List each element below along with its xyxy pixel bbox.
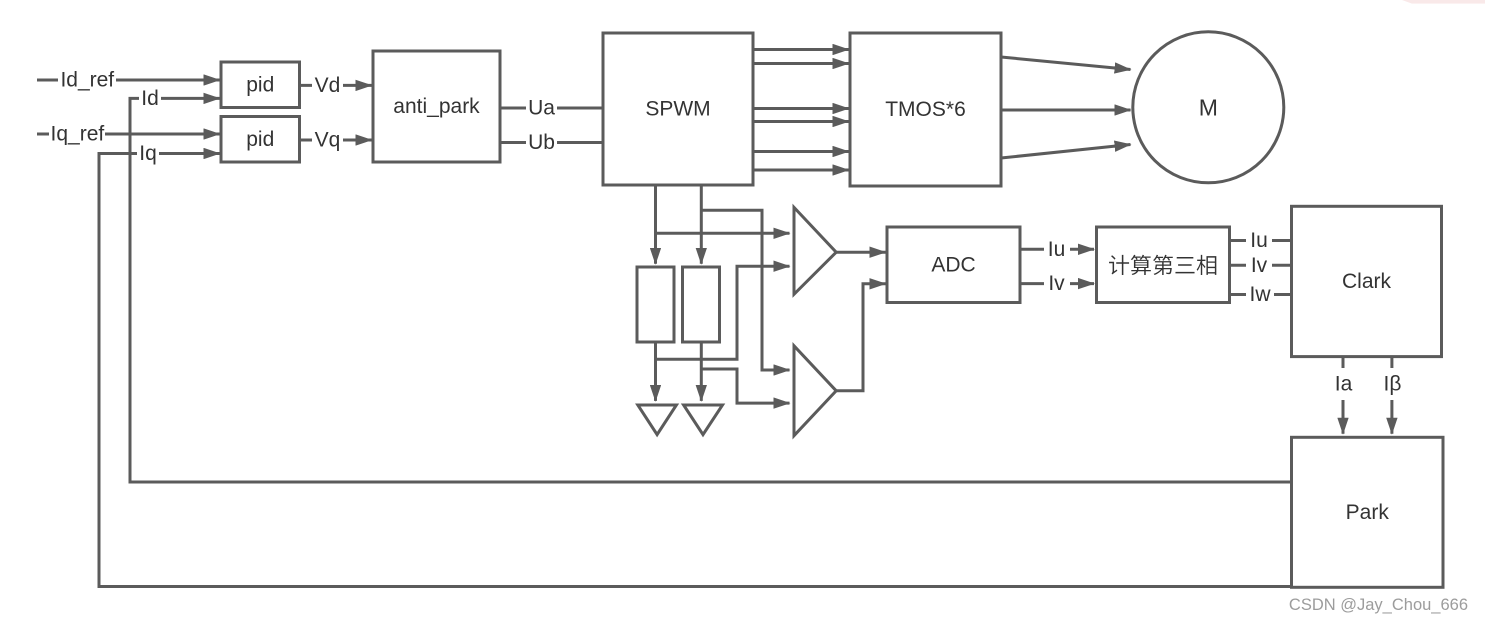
wire Vd (300, 84, 372, 87)
TMOS*6 block U5 (850, 33, 1001, 186)
wire pwm2 SPWM to TMOS (753, 62, 849, 65)
wire SPWM outB down to R2 (700, 185, 703, 264)
wire op-amp A2 out to ADC (836, 284, 886, 391)
resistor R2 (683, 267, 720, 342)
ground GND1 (638, 405, 677, 435)
svg-text:Clark: Clark (1342, 270, 1392, 293)
label Id_ref (58, 68, 116, 92)
svg-text:pid: pid (246, 73, 274, 96)
label Ub (526, 131, 557, 155)
wire Iu ADC out (1020, 248, 1094, 251)
motor M (1133, 32, 1284, 183)
wire Iv to Clark (1230, 264, 1293, 267)
wire pwm1 SPWM to TMOS (753, 48, 849, 51)
svg-text:Ia: Ia (1335, 373, 1353, 396)
svg-text:Ua: Ua (528, 97, 555, 120)
svg-text:M: M (1199, 94, 1218, 120)
label Ua (526, 96, 557, 120)
label Iu2 (1246, 229, 1272, 253)
label Id (139, 86, 161, 110)
SPWM block U4 (603, 33, 753, 185)
svg-text:Id_ref: Id_ref (60, 69, 114, 92)
ADC block U6 (887, 227, 1020, 303)
svg-text:Iu: Iu (1250, 229, 1268, 252)
wire Ua (500, 107, 604, 110)
svg-text:Iβ: Iβ (1384, 373, 1402, 396)
pid controller U1 (221, 62, 300, 108)
svg-text:Park: Park (1346, 501, 1390, 524)
wire branch A to op-amp A1 input1 (656, 232, 790, 235)
wire pwm3 SPWM to TMOS (753, 107, 849, 110)
wire Ibeta Clark to Park (1390, 357, 1393, 434)
anti_park block U3 (373, 51, 500, 162)
wire Id_ref input (37, 79, 220, 82)
pink banner fragment top-right (1402, 0, 1485, 4)
wire pwm6 SPWM to TMOS (753, 169, 849, 172)
label Iu (1044, 237, 1070, 261)
wire pwm5 SPWM to TMOS (753, 150, 849, 153)
svg-text:Iq_ref: Iq_ref (51, 123, 105, 146)
svg-text:pid: pid (246, 128, 274, 151)
wire phase W to motor (1001, 145, 1131, 159)
wire op-amp A1 out to ADC (836, 251, 886, 254)
wire Iw to Clark (1230, 293, 1293, 296)
label Iw (1246, 283, 1274, 307)
wire Iq feedback from Park (99, 154, 1292, 587)
svg-text:SPWM: SPWM (645, 98, 710, 121)
wire Iu to Clark (1230, 239, 1293, 242)
wire R2 sense to op-amp A2 input2 (701, 369, 789, 403)
svg-text:Iu: Iu (1048, 238, 1066, 261)
label Iv (1044, 272, 1070, 296)
op-amp A1 (794, 207, 836, 294)
wire Iv ADC out (1020, 282, 1094, 285)
svg-text:Ub: Ub (528, 131, 555, 154)
wire Vq (300, 139, 372, 142)
wire Iq_ref input (37, 133, 220, 136)
label Ia (1330, 368, 1357, 400)
wire pwm4 SPWM to TMOS (753, 120, 849, 123)
wire R2 to ground (700, 342, 703, 401)
label Iv2 (1246, 253, 1272, 277)
label Iq_ref (49, 122, 105, 146)
pid controller U2 (221, 117, 300, 163)
svg-text:Iw: Iw (1250, 283, 1272, 306)
svg-text:CSDN @Jay_Chou_666: CSDN @Jay_Chou_666 (1289, 596, 1468, 614)
svg-text:Iv: Iv (1251, 254, 1268, 277)
Park block U9 (1292, 437, 1444, 587)
wire phase V to motor (1001, 109, 1131, 112)
wire R1 to ground (654, 342, 657, 401)
svg-text:Iv: Iv (1048, 272, 1065, 295)
svg-text:Iq: Iq (139, 142, 157, 165)
wire R1 sense to op-amp A1 input2 (656, 266, 790, 359)
svg-text:Vq: Vq (315, 129, 341, 152)
wire Ia Clark to Park (1342, 357, 1345, 434)
svg-text:Vd: Vd (315, 74, 341, 97)
svg-text:anti_park: anti_park (393, 95, 480, 118)
third-phase calc block U7 (计算第三相) (1097, 227, 1230, 303)
label Vd (312, 73, 343, 97)
wire phase U to motor (1001, 57, 1131, 70)
label Iq (137, 142, 159, 166)
op-amp A2 (794, 346, 836, 436)
ground GND2 (684, 405, 723, 435)
wire SPWM outA down to R1 (654, 185, 657, 264)
resistor R1 (637, 267, 674, 342)
svg-text:ADC: ADC (931, 253, 975, 276)
svg-text:TMOS*6: TMOS*6 (885, 98, 966, 121)
Clark block U8 (1292, 206, 1442, 356)
label Vq (312, 128, 343, 152)
label Ibeta (1379, 368, 1406, 400)
wire branch B to op-amp A2 input1 (701, 210, 789, 370)
wire Ub (500, 141, 604, 144)
wire Id feedback from Park (130, 98, 1292, 482)
svg-text:Id: Id (141, 87, 159, 110)
